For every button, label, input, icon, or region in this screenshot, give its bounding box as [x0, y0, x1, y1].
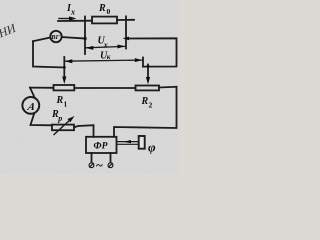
arrow at node B corner: [123, 37, 130, 41]
wire A-loop top to R1: [30, 87, 54, 89]
svg-text:1: 1: [64, 100, 68, 109]
label Ux: [98, 35, 108, 49]
coupling lines to knob: [118, 140, 139, 144]
node B vertical (right R0 terminal / Ux tick): [125, 16, 127, 48]
scan grain overlay: [0, 0, 179, 174]
wire top feed: [58, 20, 92, 22]
arrow onto R2 wiper: [146, 77, 150, 85]
label R2: [141, 96, 153, 110]
svg-text:φ: φ: [148, 140, 156, 155]
node A vertical (left R0 terminal / Ux tick): [84, 17, 86, 55]
label Rр: [51, 109, 62, 123]
svg-text:x: x: [70, 8, 75, 17]
tick Uи right: [142, 58, 144, 67]
label Ix: [66, 3, 75, 17]
wire node B to right edge: [126, 38, 177, 66]
stub ФР bottom left: [91, 153, 93, 163]
svg-text:ФР: ФР: [94, 142, 108, 152]
terminal left: [89, 163, 94, 168]
junction dot right wiper: [147, 65, 150, 68]
label Uи: [100, 50, 111, 61]
ammeter A: [22, 97, 39, 114]
ammeter branch: top corner down: [30, 88, 35, 98]
rheostat arrow: [54, 116, 75, 135]
dimension Uи: [65, 58, 143, 63]
svg-text:0: 0: [107, 7, 111, 16]
label R1: [56, 95, 68, 109]
wiper wire into R2: [147, 65, 149, 80]
svg-text:ВГ: ВГ: [50, 34, 59, 41]
wire R2 right to riser: [159, 86, 177, 89]
junction dot node A: [83, 37, 86, 40]
label R0: [98, 3, 111, 16]
svg-text:x: x: [103, 40, 108, 49]
galvanometer ВГ: [50, 31, 61, 42]
arrow Ix current direction: [59, 16, 77, 20]
svg-text:R: R: [56, 95, 64, 106]
svg-text:~: ~: [96, 158, 103, 173]
wire ВГ left + down corner: [33, 38, 64, 68]
knob rectangle: [139, 136, 145, 149]
rheostat Rр box: [52, 125, 74, 131]
ammeter branch: bottom: [31, 113, 53, 125]
wire R0 right overshoot: [117, 19, 134, 21]
label НИ (handwritten annotation): [0, 20, 19, 40]
svg-text:R: R: [98, 3, 106, 14]
terminal right: [108, 163, 113, 168]
stub ФР bottom right: [110, 153, 112, 163]
riser right edge down: [114, 87, 177, 137]
svg-text:p: p: [57, 114, 62, 123]
resistor R1: [54, 85, 75, 90]
junction dot left wiper: [63, 66, 66, 69]
wiper wire into R1: [63, 57, 65, 79]
wire Rр to ФР: [74, 125, 94, 137]
block ФР (phase regulator): [86, 137, 117, 153]
dimension Ux: [86, 45, 126, 50]
resistor R2: [136, 86, 160, 91]
arrow onto R1 wiper: [62, 77, 66, 85]
rail wire R1 to R2: [74, 87, 135, 89]
svg-text:к: к: [107, 53, 111, 61]
wire ВГ to node A: [62, 37, 85, 39]
svg-text:R: R: [141, 96, 149, 107]
svg-text:2: 2: [149, 101, 153, 110]
resistor R0: [92, 17, 117, 24]
